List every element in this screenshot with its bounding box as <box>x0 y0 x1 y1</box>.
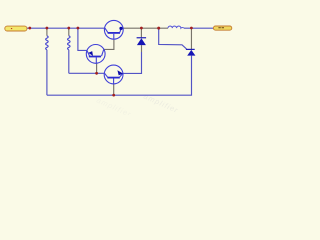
inductor L1 <box>168 26 184 28</box>
Q2 emitter arrow <box>88 51 93 56</box>
watermark <box>95 92 180 119</box>
wire: Q2 base branch <box>78 28 87 50</box>
transistor Q2 <box>86 45 105 64</box>
wire: bypass from rail to D2 cathode <box>159 28 187 49</box>
transistor Q1 <box>104 20 123 39</box>
node: R2 top <box>67 27 70 30</box>
transistor Q3 <box>104 65 123 84</box>
node: Q3 ground junction <box>112 94 115 97</box>
wire: D2 top lead <box>190 28 192 49</box>
resistor R1 <box>46 28 49 95</box>
wire: Q3 bottom to ground rail <box>113 84 115 95</box>
node: Q2-Q3 junction <box>95 72 98 75</box>
wire: Q1 base to Q2 collector <box>104 39 114 49</box>
wire: top rail left (oval to Q1) <box>27 27 105 29</box>
Q3 emitter arrow <box>117 70 123 75</box>
node: oval lead <box>28 27 31 30</box>
node: D2 top <box>190 27 193 30</box>
wire: Q2 emitter down to Q3 base rail <box>96 63 98 73</box>
wire: bottom rail <box>47 56 192 96</box>
wire: D1 anode down and left to Q3 <box>141 45 143 52</box>
node: D1 top <box>140 27 143 30</box>
node: Q2 base branch <box>77 27 80 30</box>
wire: Q3 base rail (R2 corner to Q3) <box>69 72 105 74</box>
terminal: input port <box>5 26 27 31</box>
wire: D1 top lead <box>140 28 142 38</box>
node: bypass branch <box>157 27 160 30</box>
node: R1 top <box>46 27 49 30</box>
Q1 emitter dot <box>119 27 122 30</box>
wire: top rail right (inductor to right oval) <box>184 27 214 29</box>
diode D2 <box>186 49 196 56</box>
terminal: output port <box>213 26 231 30</box>
resistor R2 <box>68 28 71 73</box>
wire: top rail gray (Q1 right to inductor) <box>123 27 168 29</box>
diode D1 <box>137 37 147 45</box>
